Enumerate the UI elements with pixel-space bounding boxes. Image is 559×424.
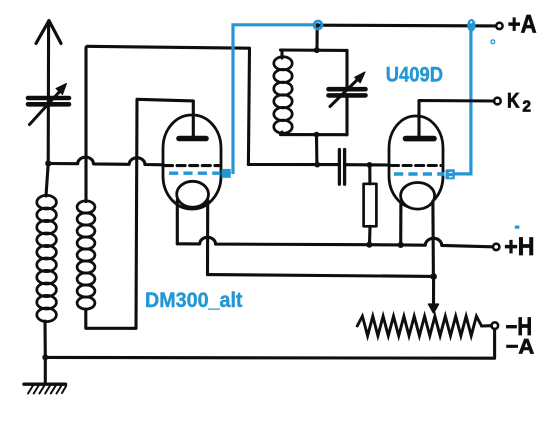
wire bottom bus (-A) [45, 329, 494, 358]
coil L2 secondary (grid/tickler coil) [77, 48, 136, 329]
wire +A top rail [318, 24, 496, 28]
wire grid line to detector stage [248, 163, 337, 166]
terminal -H [492, 322, 499, 329]
node top +A junction [315, 23, 319, 27]
tube V2 filament legs [399, 201, 402, 245]
cyan square marker at V1 [222, 169, 231, 178]
wire grid bus (with hops over coil and anode-coil lines) [48, 157, 163, 165]
tube V1 filament legs [176, 200, 179, 244]
stray cyan square above +H [515, 226, 520, 229]
cyan wire V2 to +A [455, 30, 471, 174]
cyan circle junction marker [314, 21, 322, 29]
stray cyan circle near +A [491, 40, 495, 44]
svg-text:K: K [507, 90, 520, 113]
variable capacitor C2 (tank tuning) [329, 72, 366, 107]
svg-text:DM300_alt: DM300_alt [145, 289, 243, 312]
wire tank bottom drop [315, 135, 318, 165]
wire tank top drop [315, 25, 318, 50]
tank right rail segments [345, 50, 348, 134]
node grid-bus left junction [45, 160, 51, 166]
tube V1 grid (dashed) [165, 164, 221, 167]
node V2 left leg on +H rail [398, 242, 404, 248]
wire wiper drop with arrowhead [429, 276, 439, 312]
terminal K2 [494, 98, 501, 105]
node tank bottom [314, 132, 320, 138]
svg-text:2: 2 [522, 98, 531, 115]
ground [24, 357, 66, 393]
terminal +H [493, 244, 499, 250]
node ground junction [42, 354, 48, 360]
tube V2 envelope [389, 116, 443, 276]
wire filament return (V1 right leg to wiper node) [208, 275, 434, 277]
tank circuit: node top [314, 47, 320, 53]
tube V1 anode bar [179, 136, 206, 142]
coil L1 primary (antenna coil) [37, 164, 57, 358]
tank coil L3 [274, 51, 292, 135]
svg-text:+A: +A [508, 11, 537, 39]
cyan dashed line in V1 [169, 171, 221, 174]
wire filament bus (+H rail with hops) [177, 237, 492, 246]
capacitor C3 (coupling) [339, 150, 389, 185]
cyan teardrop junction at +A [467, 19, 475, 32]
svg-text:U409D: U409D [386, 62, 443, 86]
wire V2 anode to K2 [419, 101, 494, 137]
node wiper junction [430, 273, 437, 280]
variable capacitor C1 (antenna trimmer) [28, 84, 69, 125]
tank top rail [281, 48, 348, 52]
svg-text:+H: +H [504, 233, 534, 261]
terminal +A [496, 23, 502, 29]
tube V2 anode bar [406, 136, 435, 142]
node grid wire / tank junction [314, 162, 320, 168]
wire R2 to -H terminal [482, 324, 492, 327]
tube V2 grid (dashed) [391, 164, 442, 167]
antenna [36, 21, 61, 163]
tube V1 base circle [177, 181, 209, 207]
tank bottom rail [281, 133, 348, 136]
potentiometer R2 (filament rheostat) [357, 316, 481, 336]
node R1 bottom on +H rail [366, 242, 372, 248]
cyan square marker at V2 [446, 169, 455, 179]
svg-text:−A: −A [506, 334, 535, 358]
cyan wire V1 to top rail [233, 25, 316, 174]
wire anode feedback (tube V1 anode to coil bottom) [136, 99, 193, 328]
resistor R1 (grid leak) [364, 165, 377, 245]
tube V2 base circle [401, 183, 435, 210]
cyan dashed line in V2 [394, 172, 445, 175]
wire top-left (coil top to grid line corner) [87, 46, 250, 164]
node grid-leak junction [367, 162, 373, 168]
cyan highlighted net (anode of V1 to +A) [169, 19, 519, 229]
tube V1 envelope [163, 115, 221, 275]
